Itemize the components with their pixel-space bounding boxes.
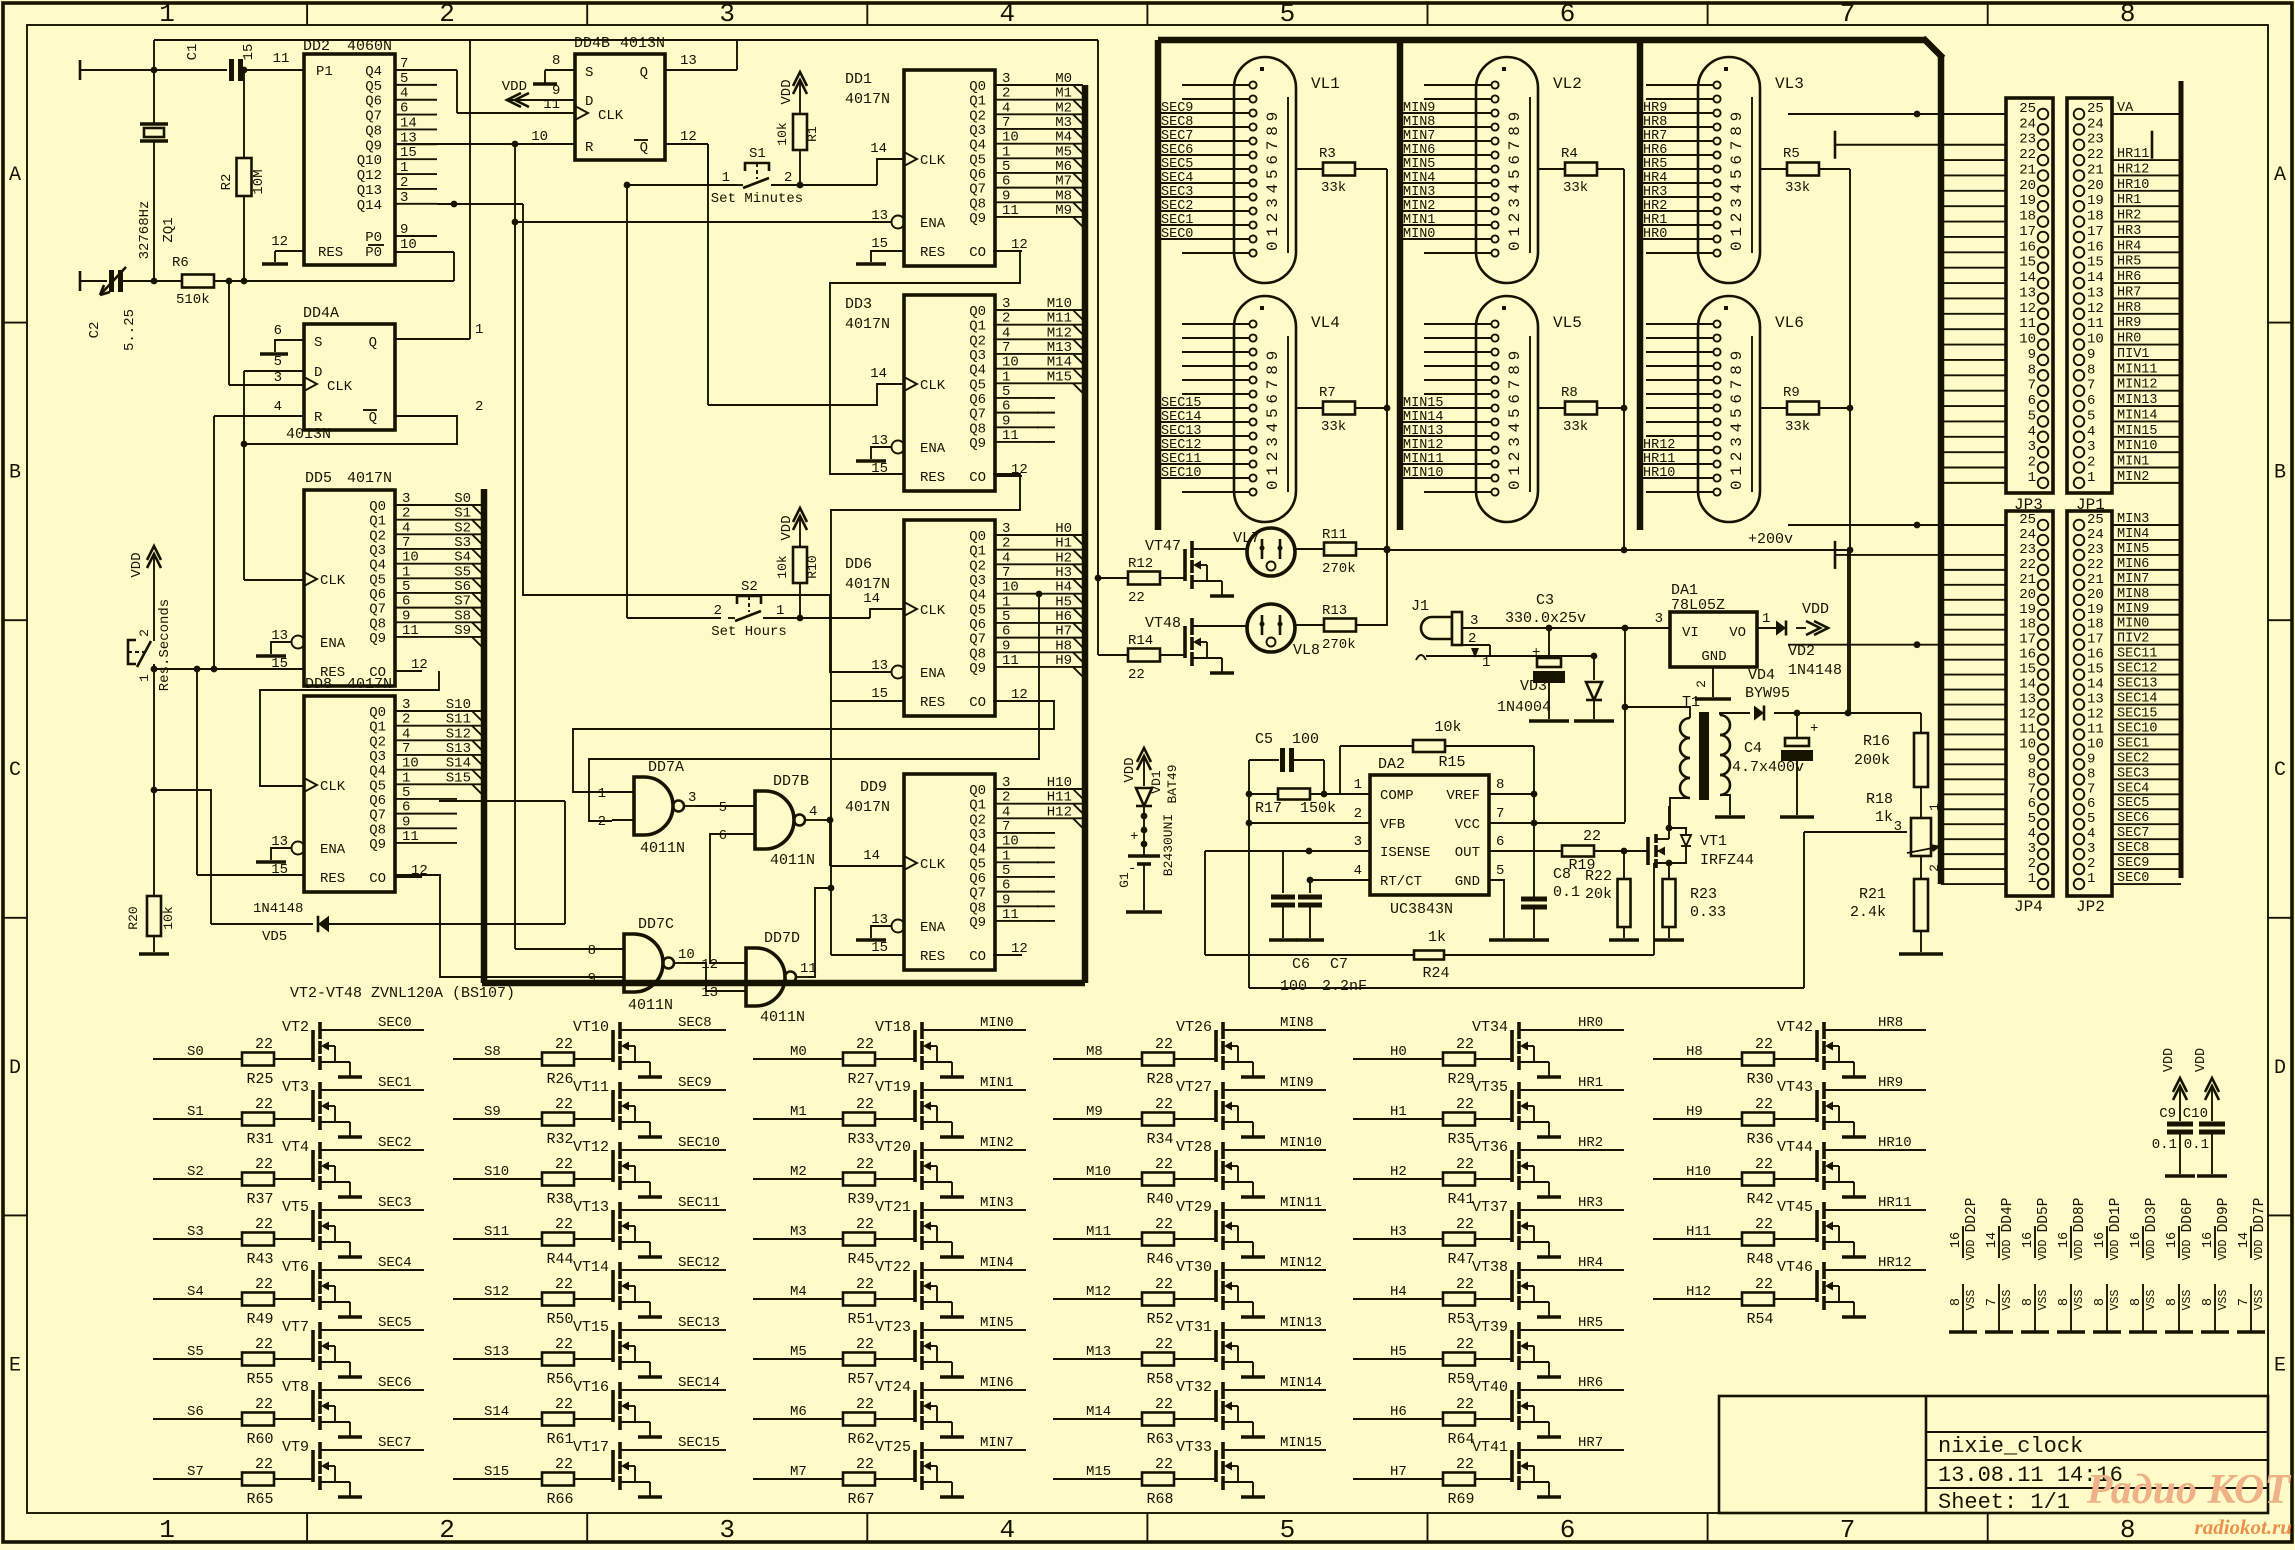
svg-text:MIN15: MIN15 [2117,424,2158,439]
svg-text:4: 4 [402,726,410,742]
svg-text:VDD: VDD [502,79,527,95]
svg-text:4: 4 [999,1515,1015,1545]
svg-text:DD3: DD3 [845,296,872,313]
svg-text:22: 22 [2087,147,2104,163]
svg-text:8: 8 [2201,1298,2216,1306]
svg-text:4.7x400v: 4.7x400v [1732,759,1804,776]
svg-text:S1: S1 [749,146,766,162]
transistor VT2 [311,1030,315,1062]
svg-text:10k: 10k [161,906,176,930]
svg-text:3: 3 [1002,71,1010,87]
svg-text:R31: R31 [246,1131,273,1148]
svg-text:DD9P: DD9P [2216,1198,2232,1233]
svg-text:S7: S7 [454,594,471,610]
transistor VT10 [611,1030,615,1062]
svg-text:1k: 1k [1428,929,1446,946]
wire DD2 Q4 to DD4B CLK net [437,69,457,71]
svg-text:Q4: Q4 [969,842,986,858]
JP3 pin 24 [2038,124,2049,135]
svg-text:1: 1 [598,786,606,802]
svg-text:M4: M4 [1055,130,1072,146]
wire gate input M1 [753,1118,843,1120]
svg-text:3: 3 [2087,439,2095,455]
svg-text:R28: R28 [1146,1071,1173,1088]
resistor R26 22 [542,1053,574,1066]
svg-text:Q0: Q0 [969,783,986,799]
svg-text:22: 22 [1755,1156,1773,1173]
svg-text:Q2: Q2 [969,108,986,124]
svg-text:11: 11 [402,829,419,845]
JP2 pin 18 [2074,624,2085,635]
wire drain output HR4 [1519,1269,1624,1271]
svg-text:21: 21 [2087,572,2104,588]
svg-text:HR4: HR4 [2117,239,2141,254]
diode VD5 1N4148 [211,923,313,925]
wire VT1 drain to T1 [1668,806,1670,828]
wire drain output SEC8 [620,1029,726,1031]
svg-text:4017N: 4017N [845,316,890,333]
svg-text:MIN8: MIN8 [1280,1015,1314,1031]
svg-text:10M: 10M [251,169,267,194]
JP2 pin 22 [2074,565,2085,576]
svg-text:VT21: VT21 [875,1199,911,1216]
crystal ZQ1 [153,70,155,124]
JP3 pin 21 [2038,170,2049,181]
svg-text:1: 1 [2087,871,2095,887]
resistor R57 22 [843,1353,875,1366]
svg-text:HR0: HR0 [2117,332,2141,347]
svg-text:M5: M5 [1055,144,1072,160]
svg-text:R21: R21 [1859,886,1886,903]
resistor R24 1k feedback [1205,850,1283,852]
svg-text:MIN7: MIN7 [1403,129,1435,144]
wire drain output SEC13 [620,1329,726,1331]
svg-text:HR7: HR7 [2117,285,2141,300]
svg-text:Q3: Q3 [969,348,986,364]
svg-text:M8: M8 [1055,188,1072,204]
JP4 pin 17 [2038,639,2049,650]
svg-text:33k: 33k [1785,419,1810,435]
svg-text:VD4: VD4 [1748,667,1775,684]
svg-text:9: 9 [1002,638,1010,654]
svg-text:VL1: VL1 [1311,75,1340,93]
VFB pin2 wire [1249,822,1370,824]
wire gate input M10 [1053,1178,1142,1180]
svg-text:T1: T1 [1682,694,1700,711]
resistor R46 22 [1142,1233,1174,1246]
svg-text:D: D [314,365,322,381]
resistor R21 2.4k [1920,856,1922,879]
svg-text:3: 3 [1354,834,1362,850]
svg-text:2: 2 [1002,790,1010,806]
svg-text:22: 22 [2019,147,2036,163]
svg-text:VT35: VT35 [1472,1079,1508,1096]
svg-text:VT36: VT36 [1472,1139,1508,1156]
svg-text:S11: S11 [446,712,471,728]
svg-text:SEC4: SEC4 [378,1255,412,1271]
svg-text:CO: CO [969,245,986,261]
resistor R29 22 [1443,1053,1475,1066]
resistor R2 10M [237,158,252,196]
switch S1 Set Minutes [745,163,769,171]
svg-text:14: 14 [2019,270,2036,286]
svg-text:MIN14: MIN14 [1280,1375,1322,1391]
svg-text:MIN10: MIN10 [1280,1135,1322,1151]
svg-text:MIN6: MIN6 [980,1375,1014,1391]
svg-text:7: 7 [1985,1298,2000,1306]
svg-text:0.33: 0.33 [1690,904,1726,921]
svg-text:10: 10 [1002,834,1019,850]
wire C2 row to R6 [121,280,182,282]
svg-text:4: 4 [1002,100,1010,116]
svg-text:ENA: ENA [920,441,946,457]
transistor VT20 [913,1150,917,1182]
resistor R41 22 [1443,1173,1475,1186]
DD5 CO loop to DD8 CLK [260,671,439,786]
svg-text:32768Hz: 32768Hz [137,201,153,260]
svg-text:1N4148: 1N4148 [1788,662,1842,679]
transistor VT14 [611,1270,615,1302]
svg-text:R42: R42 [1746,1191,1773,1208]
svg-text:2: 2 [402,712,410,728]
JP2 pin 19 [2074,609,2085,620]
svg-text:S4: S4 [454,550,471,566]
transistor VT15 [611,1330,615,1362]
svg-text:6: 6 [1002,399,1010,415]
svg-text:Q9: Q9 [969,661,986,677]
svg-text:9: 9 [1002,413,1010,429]
transistor VT46 [1815,1270,1819,1302]
svg-text:3: 3 [2028,439,2036,455]
transistor VT13 [611,1210,615,1242]
svg-text:4: 4 [1002,804,1010,820]
svg-text:SEC6: SEC6 [1161,143,1193,158]
JP2 pin 12 [2074,714,2085,725]
svg-text:6: 6 [1496,834,1504,850]
svg-text:Q3: Q3 [969,123,986,139]
svg-text:1: 1 [402,564,410,580]
svg-text:S3: S3 [187,1224,204,1240]
svg-text:H10: H10 [1047,775,1072,791]
svg-text:SEC6: SEC6 [378,1375,412,1391]
JP4 pin 9 [2038,759,2049,770]
svg-text:Q6: Q6 [365,94,382,110]
svg-text:Q3: Q3 [969,573,986,589]
IC DD4B 4013N box [575,54,665,160]
svg-text:12: 12 [271,234,288,250]
svg-text:25: 25 [2019,512,2036,528]
JP1 pin 4 [2074,431,2085,442]
wire +200v down to VD4 node [1847,550,1849,713]
wire drain output SEC4 [320,1269,424,1271]
svg-text:': ' [1292,180,1300,196]
transistor VT11 [611,1090,615,1122]
svg-text:A: A [9,164,21,187]
svg-text:6: 6 [402,594,410,610]
transistor VT1 IRFZ44 [1646,837,1650,865]
JP3 pin 2 [2038,462,2049,473]
svg-text:23: 23 [2087,542,2104,558]
svg-text:Q13: Q13 [357,183,382,199]
svg-text:H9: H9 [1686,1104,1703,1120]
svg-text:VSS: VSS [2001,1290,2014,1311]
svg-text:VDD: VDD [1802,601,1829,618]
svg-text:SEC13: SEC13 [1161,424,1202,439]
resistor R20 10k [147,896,161,936]
svg-text:R41: R41 [1447,1191,1474,1208]
svg-text:22: 22 [856,1456,874,1473]
svg-text:C3: C3 [1536,592,1554,609]
svg-text:2: 2 [598,814,606,830]
switch S2 Set Hours [737,596,761,604]
svg-text:MIN13: MIN13 [1280,1315,1322,1331]
svg-text:DD1P: DD1P [2108,1198,2124,1233]
svg-text:22: 22 [1456,1396,1474,1413]
svg-text:C1: C1 [185,44,201,61]
svg-text:S10: S10 [484,1164,509,1180]
svg-text:H11: H11 [1047,790,1072,806]
svg-text:R69: R69 [1447,1491,1474,1508]
svg-text:33k: 33k [1785,180,1810,196]
VL3 pins [1713,81,1720,88]
svg-text:H11: H11 [1686,1224,1711,1240]
svg-text:22: 22 [1128,590,1145,606]
svg-text:H2: H2 [1055,550,1072,566]
svg-text:': ' [1756,180,1764,196]
svg-text:C: C [9,759,21,782]
bus JP feed vertical [1938,56,1945,884]
node crystal-bottom junction [151,278,158,285]
svg-text:H7: H7 [1390,1464,1407,1480]
svg-text:S: S [314,335,322,351]
svg-text:13: 13 [680,53,697,69]
wire drain output MIN15 [1223,1449,1326,1451]
svg-text:VT1: VT1 [1700,833,1727,850]
svg-text:SEC7: SEC7 [1161,129,1193,144]
svg-text:H5: H5 [1055,594,1072,610]
svg-text:8: 8 [2057,1298,2072,1306]
svg-text:9: 9 [400,222,408,238]
JP4 pin 19 [2038,609,2049,620]
nixie tube VL5 [1476,296,1538,522]
IC DD4A 4013N box [304,324,395,430]
transistor VT24 [913,1390,917,1422]
svg-text:R11: R11 [1322,527,1347,543]
svg-text:7: 7 [1840,0,1856,29]
transistor VT31 [1214,1330,1218,1362]
svg-text:VT37: VT37 [1472,1199,1508,1216]
svg-text:M12: M12 [1047,325,1072,341]
svg-text:SEC12: SEC12 [678,1255,720,1271]
svg-text:Q4: Q4 [365,64,382,80]
svg-text:HR1: HR1 [1643,213,1667,228]
svg-text:R66: R66 [546,1491,573,1508]
svg-text:HR11: HR11 [1643,452,1675,467]
svg-text:Q2: Q2 [969,812,986,828]
svg-text:14: 14 [400,115,417,131]
VT1 body zener [1669,828,1686,834]
svg-text:22: 22 [1755,1276,1773,1293]
svg-text:R3: R3 [1319,146,1336,162]
svg-text:3: 3 [2028,841,2036,857]
svg-text:S12: S12 [484,1284,509,1300]
svg-text:Q9: Q9 [969,436,986,452]
svg-text:13: 13 [2087,692,2104,708]
svg-text:5: 5 [2028,811,2036,827]
svg-text:8: 8 [2087,362,2095,378]
svg-text:DD5: DD5 [305,470,332,487]
svg-text:R12: R12 [1128,556,1153,572]
wire drain output HR8 [1824,1029,1926,1031]
DD4A /Q pin2 loop to DD5 CLK [244,416,457,444]
svg-text:10: 10 [678,947,695,963]
svg-text:MIN2: MIN2 [980,1135,1014,1151]
svg-text:3: 3 [1002,521,1010,537]
gate DD7B 4011N [755,791,794,849]
resistor R50 22 [542,1293,574,1306]
svg-text:M13: M13 [1047,340,1072,356]
JP4 pin 12 [2038,714,2049,725]
svg-text:VSS: VSS [2073,1290,2086,1311]
connector JP4 box [2006,511,2053,896]
svg-text:R36: R36 [1746,1131,1773,1148]
svg-text:Res.Seconds: Res.Seconds [157,599,173,691]
svg-text:C10: C10 [2183,1106,2208,1122]
svg-text:C7: C7 [1330,956,1348,973]
wire DD7B out to DD9 CLK [817,819,830,821]
JP3 pin 19 [2038,201,2049,212]
DD1 ENA pin13 [892,216,905,229]
svg-text:R37: R37 [246,1191,273,1208]
svg-text:11: 11 [402,623,419,639]
svg-text:2.4k: 2.4k [1850,904,1886,921]
svg-text:6: 6 [2087,393,2095,409]
svg-text:S5: S5 [187,1344,204,1360]
wire drain output HR12 [1824,1269,1926,1271]
wire gate input S10 [453,1178,542,1180]
JP2 pin 8 [2074,774,2085,785]
svg-text:4011N: 4011N [760,1009,805,1026]
svg-text:12: 12 [411,657,428,673]
wire drain output HR6 [1519,1389,1624,1391]
DD3 CO loop to DD6/DD9 RES rail [831,474,1020,955]
resistor R32 22 [542,1113,574,1126]
svg-text:16: 16 [1949,1232,1964,1248]
svg-text:MIN11: MIN11 [2117,362,2158,377]
wire DD7C in9 from DD8 CO [395,875,602,977]
svg-text:R43: R43 [246,1251,273,1268]
DD4A S pin6 ground [275,340,304,352]
svg-text:VCC: VCC [1455,817,1480,833]
svg-text:33k: 33k [1321,419,1346,435]
svg-text:R62: R62 [847,1431,874,1448]
svg-text:MIN9: MIN9 [1280,1075,1314,1091]
wire drain output SEC12 [620,1269,726,1271]
resistor R61 22 [542,1413,574,1426]
svg-text:25: 25 [2087,512,2104,528]
resistor R39 22 [843,1173,875,1186]
svg-text:15: 15 [400,145,417,161]
svg-text:Q10: Q10 [357,153,382,169]
svg-text:Q4: Q4 [369,558,386,574]
svg-text:R16: R16 [1863,733,1890,750]
svg-text:22: 22 [555,1456,573,1473]
JP1 pin 25 [2074,109,2085,120]
svg-text:4: 4 [1354,863,1362,879]
JP2 pin 2 [2074,864,2085,875]
node C3 junction [1546,625,1553,632]
svg-text:Q7: Q7 [969,886,986,902]
svg-text:R49: R49 [246,1311,273,1328]
svg-text:22: 22 [555,1036,573,1053]
svg-text:VSS: VSS [2181,1290,2194,1311]
svg-text:': ' [1756,327,1764,343]
svg-text:11: 11 [2019,316,2036,332]
svg-text:Q7: Q7 [969,632,986,648]
resistor R68 22 [1142,1473,1174,1486]
svg-text:Q: Q [369,335,377,351]
JP4 pin 21 [2038,580,2049,591]
svg-text:14: 14 [2019,677,2036,693]
gate DD7A 4011N [634,777,673,835]
wire gate input M5 [753,1358,843,1360]
svg-text:4013N: 4013N [620,35,665,52]
svg-text:Q0: Q0 [369,499,386,515]
wire drain output SEC3 [320,1209,424,1211]
svg-text:VT14: VT14 [573,1259,609,1276]
svg-text:CLK: CLK [598,108,624,124]
DD6 ENA pin13 [892,666,905,679]
svg-text:22: 22 [555,1396,573,1413]
svg-text:': ' [1292,88,1300,104]
svg-text:22: 22 [555,1276,573,1293]
wire gate input H9 [1653,1118,1742,1120]
VL4 pins [1249,320,1256,327]
svg-text:11: 11 [1002,428,1019,444]
wire drain output SEC11 [620,1209,726,1211]
wire gate input M14 [1053,1418,1142,1420]
svg-text:SEC4: SEC4 [1161,171,1193,186]
svg-text:VT44: VT44 [1777,1139,1813,1156]
svg-text:DD4P: DD4P [2000,1198,2016,1233]
svg-text:SEC15: SEC15 [2117,706,2158,721]
svg-text:MIN2: MIN2 [1403,199,1435,214]
svg-text:22: 22 [1456,1336,1474,1353]
svg-text:MIN8: MIN8 [1403,115,1435,130]
svg-text:Q9: Q9 [369,837,386,853]
wire drain output SEC10 [620,1149,726,1151]
svg-text:SEC5: SEC5 [2117,796,2149,811]
svg-text:4: 4 [402,520,410,536]
JP2 pin 14 [2074,684,2085,695]
svg-text:H12: H12 [1047,804,1072,820]
svg-text:22: 22 [856,1276,874,1293]
transistor VT22 [913,1270,917,1302]
svg-text:S0: S0 [187,1044,204,1060]
IC DD3 4017N box [904,295,995,491]
svg-text:9: 9 [2028,751,2036,767]
resistor R67 22 [843,1473,875,1486]
node VCC branch junction [1622,625,1629,632]
DD3 CLK pin14 [904,377,917,391]
svg-text:19: 19 [2019,193,2036,209]
svg-text:P1: P1 [316,64,333,80]
svg-text:S9: S9 [484,1104,501,1120]
transistor VT43 [1815,1090,1819,1122]
svg-text:G1: G1 [1117,872,1132,888]
node DD6 Q4 junction [1036,591,1043,598]
wire drain output MIN1 [922,1089,1026,1091]
